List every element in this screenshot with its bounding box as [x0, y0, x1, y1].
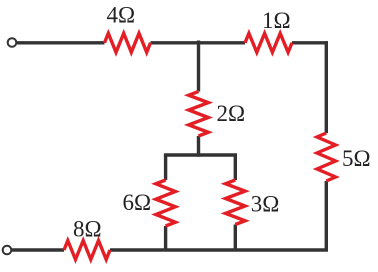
wire parallel top bar: [166, 155, 236, 157]
wire middle rail: R2 to parallel bar: [197, 136, 200, 157]
wire top-left: terminal to R4: [17, 41, 105, 44]
resistor R8 8ohm zigzag: [64, 241, 110, 260]
svg-text:1Ω: 1Ω: [262, 8, 291, 33]
wire top-right: R1 to right corner: [292, 41, 328, 44]
wire top-middle: R4 to R1 through node N1: [151, 41, 246, 44]
svg-text:3Ω: 3Ω: [251, 192, 280, 217]
resistor R2 2ohm zigzag: [189, 92, 209, 137]
svg-text:2Ω: 2Ω: [217, 101, 246, 126]
wire middle rail: node N1 down to R2: [197, 43, 200, 92]
wire right rail upper: corner down to R5: [325, 41, 328, 133]
node N1 junction stub: [197, 41, 200, 45]
resistor R1 1ohm zigzag: [245, 33, 292, 52]
wire 6-ohm branch lower lead: [164, 226, 167, 250]
svg-text:4Ω: 4Ω: [107, 3, 136, 28]
svg-text:8Ω: 8Ω: [73, 217, 102, 242]
wire 3-ohm branch lower lead: [234, 225, 237, 251]
svg-text:5Ω: 5Ω: [342, 146, 371, 171]
wire 6-ohm branch upper lead: [164, 155, 167, 180]
resistor R4 4ohm zigzag: [105, 33, 151, 52]
resistor R3 3ohm zigzag: [226, 180, 246, 225]
svg-text:6Ω: 6Ω: [123, 190, 152, 215]
wire bottom-left: terminal to R8: [12, 248, 65, 251]
terminal B (bottom-left open circle): [3, 246, 12, 255]
wire bottom rail: R8 to bottom-right corner: [110, 248, 328, 251]
wire right rail lower: R5 to bottom corner: [325, 181, 328, 250]
resistor R5 5ohm zigzag: [317, 133, 336, 181]
terminal A (top-left open circle): [8, 38, 17, 47]
resistor R6 6ohm zigzag: [156, 180, 176, 226]
wire 3-ohm branch upper lead: [234, 155, 237, 180]
